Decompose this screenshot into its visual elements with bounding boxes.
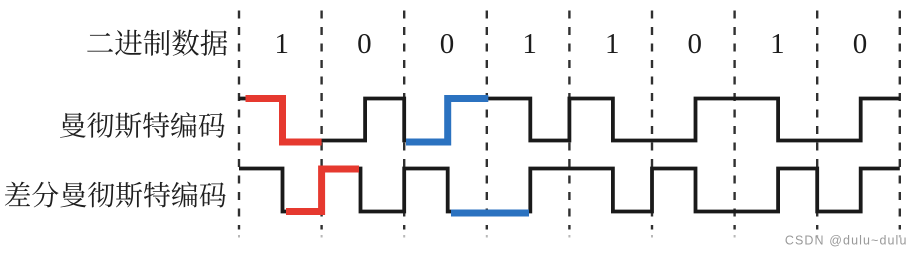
svg-text:0: 0 [688, 28, 703, 60]
svg-text:1: 1 [770, 28, 785, 60]
svg-text:0: 0 [440, 28, 455, 60]
svg-text:0: 0 [357, 28, 372, 60]
svg-text:0: 0 [853, 28, 868, 60]
svg-text:1: 1 [275, 28, 290, 60]
svg-text:CSDN @dulu~dulu: CSDN @dulu~dulu [785, 234, 908, 248]
svg-text:1: 1 [522, 28, 537, 60]
svg-text:1: 1 [605, 28, 620, 60]
